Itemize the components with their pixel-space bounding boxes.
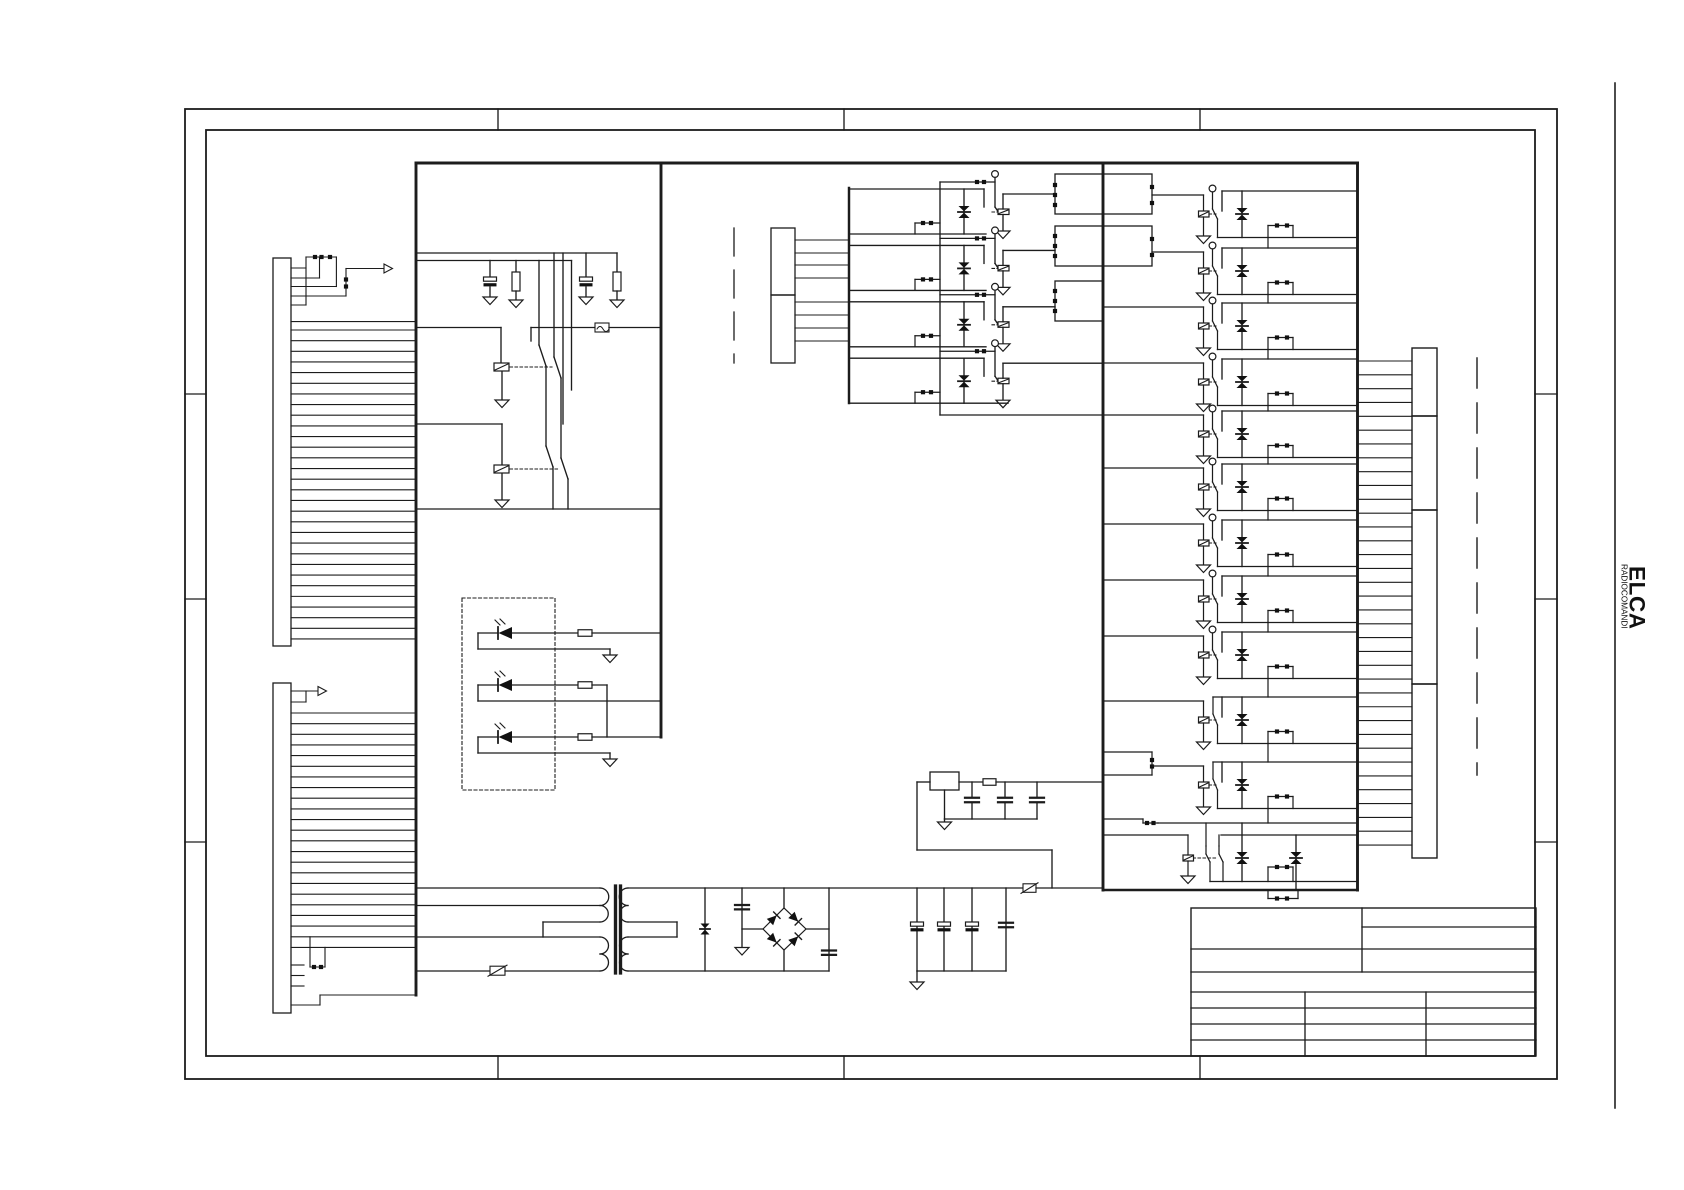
svg-text:RADIOCOMANDI: RADIOCOMANDI (1620, 564, 1629, 629)
